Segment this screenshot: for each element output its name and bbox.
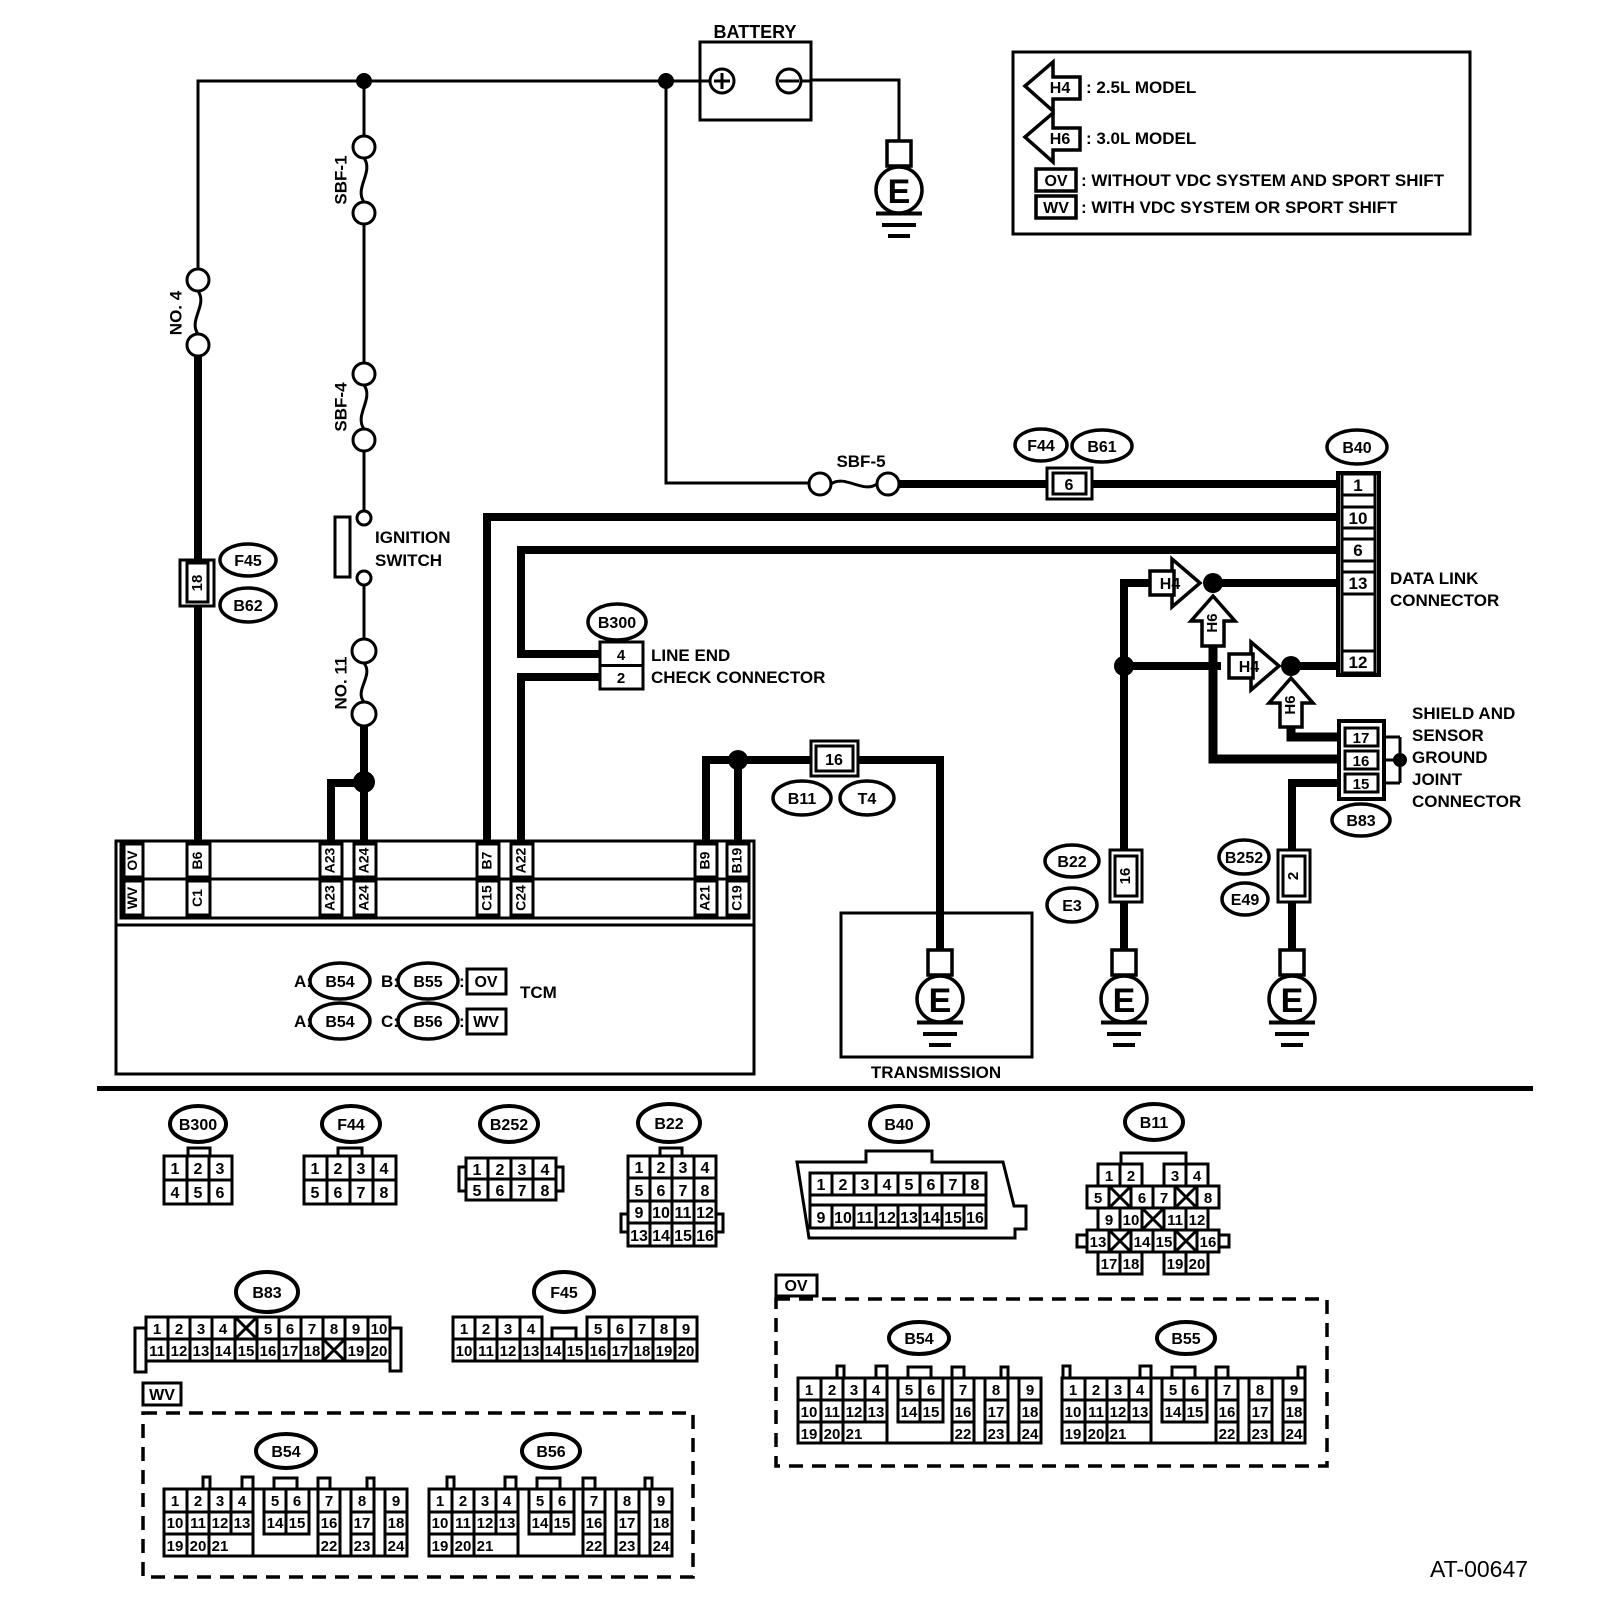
svg-text:7: 7 [959,1382,967,1399]
battery [700,42,811,120]
svg-text::: : [459,972,465,991]
svg-text:AT-00647: AT-00647 [1430,1556,1528,1582]
svg-text:12: 12 [1110,1404,1127,1421]
svg-text:4: 4 [238,1493,247,1510]
svg-text:10: 10 [432,1515,449,1532]
svg-text:16: 16 [1353,753,1370,770]
svg-text:13: 13 [630,1228,648,1245]
svg-text:CONNECTOR: CONNECTOR [1390,591,1499,610]
ellipse B300 (pinout) [170,1106,226,1142]
connector B40 pinout grid [810,1173,986,1228]
svg-text:22: 22 [955,1426,972,1443]
wire node to H4 arrow (pin 12 net) [1124,662,1338,670]
svg-text:B62: B62 [233,598,262,615]
fuse SBF-1 [353,136,375,224]
svg-text:B54: B54 [325,974,354,991]
svg-text:19: 19 [348,1343,365,1360]
svg-text:B22: B22 [1057,854,1086,871]
svg-text:6: 6 [1191,1382,1199,1399]
svg-text:T4: T4 [858,791,877,808]
svg-text:7: 7 [679,1183,688,1200]
connector B11 pinout grid [1077,1153,1229,1274]
legend H4 arrow [1025,62,1080,111]
connector B300 (line end check) [600,642,643,689]
svg-text:2: 2 [496,1162,505,1179]
svg-text:12: 12 [477,1515,494,1532]
svg-text:17: 17 [1101,1256,1118,1273]
svg-text:19: 19 [1065,1426,1082,1443]
wire SBF-1 feed [363,81,366,136]
svg-text:4: 4 [701,1160,710,1177]
svg-text:18: 18 [189,575,206,592]
svg-text:SENSOR: SENSOR [1412,726,1484,745]
svg-text:21: 21 [1110,1426,1127,1443]
svg-text:6: 6 [286,1321,294,1338]
svg-text:11: 11 [1167,1212,1183,1229]
svg-text:13: 13 [523,1343,540,1360]
svg-text:21: 21 [477,1538,494,1555]
connector 2 (B252/E49) [1278,850,1310,902]
separator line [97,1086,1533,1091]
svg-text:18: 18 [304,1343,321,1360]
TCM pin cell A24/A24 [354,844,376,915]
svg-text:H4: H4 [1160,576,1181,593]
svg-text:12: 12 [500,1343,517,1360]
svg-text:22: 22 [1219,1426,1236,1443]
svg-text:17: 17 [1252,1404,1269,1421]
svg-text:2: 2 [175,1321,183,1338]
svg-text:1: 1 [473,1162,482,1179]
svg-text:22: 22 [586,1538,603,1555]
svg-text:9: 9 [352,1321,360,1338]
svg-text:10: 10 [1123,1212,1140,1229]
svg-text:13: 13 [234,1515,251,1532]
svg-text:A24: A24 [356,847,372,873]
H4 arrow (pin 13 net) [1150,559,1200,607]
svg-text:13: 13 [1349,574,1368,593]
svg-text:18: 18 [1123,1256,1140,1273]
connector 6 (F44/B61) [1047,468,1092,499]
connector B83 shield/sensor ground joint [1339,721,1400,799]
svg-text:B54: B54 [325,1014,354,1031]
svg-text:11: 11 [824,1404,840,1421]
svg-text:18: 18 [1286,1404,1303,1421]
svg-text:8: 8 [992,1382,1000,1399]
svg-text:17: 17 [1353,730,1370,747]
svg-text:4: 4 [617,647,626,664]
svg-text:NO. 4: NO. 4 [166,290,185,335]
svg-text:20: 20 [1088,1426,1105,1443]
svg-text:SBF-1: SBF-1 [331,155,350,204]
svg-text:10: 10 [652,1205,670,1222]
svg-text:2: 2 [482,1321,490,1338]
svg-text:5: 5 [905,1382,913,1399]
svg-text:B7: B7 [479,851,495,869]
svg-text:4: 4 [380,1161,389,1178]
svg-text:3: 3 [216,1493,224,1510]
svg-text:4: 4 [883,1177,892,1194]
connector B55 pinout grid [1062,1366,1305,1443]
svg-text:3: 3 [861,1177,870,1194]
junction node at B40 pin 13 [1203,573,1223,593]
connector B252 pinout grid [459,1158,563,1200]
svg-text:5: 5 [271,1493,279,1510]
svg-text:12: 12 [1189,1212,1206,1229]
svg-text:14: 14 [532,1515,549,1532]
svg-text:2: 2 [617,670,625,687]
wire B40 pin 10 to TCM pin B7 [487,517,1338,841]
ellipse E3 [1047,888,1097,922]
svg-text:4: 4 [219,1321,228,1338]
svg-text:15: 15 [289,1515,306,1532]
svg-text:1: 1 [635,1160,644,1177]
svg-text:8: 8 [358,1493,366,1510]
svg-text:9: 9 [817,1210,826,1227]
wire NO.4 fuse to TCM pin B6 [194,356,202,841]
TCM pin row block [116,841,754,925]
svg-text:16: 16 [260,1343,277,1360]
svg-text:WV: WV [1043,200,1069,217]
TCM pin cell B6/C1 [187,844,210,915]
svg-text:5: 5 [1169,1382,1177,1399]
junction node on battery bus (SBF-1 tap) [356,73,372,89]
svg-text:10: 10 [1065,1404,1082,1421]
svg-text:: WITHOUT VDC SYSTEM AND SPORT: : WITHOUT VDC SYSTEM AND SPORT SHIFT [1081,171,1445,190]
wire ignition switch to NO.11 fuse [363,585,366,639]
WV section label box [143,1383,181,1405]
wire B252/E49 connector to ground [1288,902,1296,950]
wire SBF-5 to B40 pin 1 [899,480,1338,488]
svg-text:16: 16 [1200,1234,1217,1251]
svg-text:24: 24 [388,1538,405,1555]
svg-text:11: 11 [675,1205,692,1222]
svg-text:1: 1 [805,1382,813,1399]
svg-text:WV: WV [149,1387,175,1404]
svg-text:7: 7 [638,1321,646,1338]
svg-text:5: 5 [635,1183,644,1200]
svg-text:16: 16 [966,1210,984,1227]
svg-text:14: 14 [215,1343,232,1360]
ellipse E49 [1222,883,1268,915]
svg-text:20: 20 [371,1343,388,1360]
svg-text:5: 5 [473,1183,482,1200]
svg-text:14: 14 [1165,1404,1182,1421]
connector F45 pinout grid [453,1317,697,1361]
svg-text:F44: F44 [1027,438,1055,455]
junction node A23/A24 split [353,771,375,793]
ellipse B40 (pinout) [870,1106,928,1142]
svg-text:TCM: TCM [520,983,557,1002]
svg-text:8: 8 [623,1493,631,1510]
junction node B9/B19 split [728,750,748,770]
svg-text:A23: A23 [322,885,338,911]
legend box [1013,52,1470,234]
svg-text:2: 2 [459,1493,467,1510]
svg-text:3: 3 [850,1382,858,1399]
svg-text:B40: B40 [1342,440,1371,457]
svg-text:23: 23 [988,1426,1005,1443]
ellipse T4 [840,781,894,815]
TCM pin cell B7/C15 [477,844,499,915]
svg-text:2: 2 [657,1160,666,1177]
ellipse B11 [773,781,831,815]
transmission box [841,913,1032,1057]
svg-text:TRANSMISSION: TRANSMISSION [871,1063,1001,1082]
svg-text:21: 21 [846,1426,863,1443]
svg-text:15: 15 [674,1228,692,1245]
svg-text:19: 19 [801,1426,818,1443]
svg-text:B55: B55 [1171,1331,1200,1348]
svg-text:14: 14 [652,1228,670,1245]
svg-text:14: 14 [901,1404,918,1421]
svg-text:24: 24 [1022,1426,1039,1443]
svg-text:F45: F45 [550,1285,578,1302]
svg-text:B11: B11 [788,791,817,808]
wire B40 pin 13 to H4 arrow [1124,579,1338,587]
svg-text:15: 15 [567,1343,584,1360]
svg-text:9: 9 [682,1321,690,1338]
svg-text:16: 16 [321,1515,338,1532]
wire H6 stem to B83 joint pin 16 [1213,644,1341,759]
svg-text:14: 14 [267,1515,284,1532]
svg-text:11: 11 [455,1515,471,1532]
svg-text:24: 24 [653,1538,670,1555]
svg-text:18: 18 [388,1515,405,1532]
svg-text:10: 10 [1349,509,1368,528]
svg-text:1: 1 [460,1321,468,1338]
svg-text:: 3.0L MODEL: : 3.0L MODEL [1086,129,1196,148]
svg-text:20: 20 [678,1343,695,1360]
svg-text:12: 12 [878,1210,896,1227]
legend WV box [1036,196,1076,218]
svg-text:B9: B9 [697,851,713,869]
junction node on battery bus (SBF-5 tap) [658,73,674,89]
connector 16 (B22/E3) [1110,850,1142,902]
svg-text:B54: B54 [904,1331,933,1348]
svg-text:2: 2 [334,1161,343,1178]
svg-text:SWITCH: SWITCH [375,551,442,570]
svg-text:17: 17 [282,1343,299,1360]
svg-text:9: 9 [392,1493,400,1510]
svg-text:CONNECTOR: CONNECTOR [1412,792,1521,811]
svg-text:22: 22 [321,1538,338,1555]
svg-text:C19: C19 [729,885,745,911]
svg-text:20: 20 [455,1538,472,1555]
svg-text:16: 16 [955,1404,972,1421]
svg-text:17: 17 [988,1404,1005,1421]
legend H6 arrow [1025,113,1080,162]
svg-text:5: 5 [536,1493,544,1510]
svg-text:9: 9 [1105,1212,1113,1229]
junction node pin12 net [1114,656,1134,676]
svg-text:SBF-4: SBF-4 [331,382,350,432]
svg-text:19: 19 [1167,1256,1184,1273]
svg-text:3: 3 [1114,1382,1122,1399]
svg-text:1: 1 [153,1321,161,1338]
svg-text:E3: E3 [1062,898,1082,915]
svg-text:SHIELD AND: SHIELD AND [1412,704,1515,723]
svg-text:12: 12 [1349,653,1368,672]
svg-text:3: 3 [197,1321,205,1338]
connector B56 pinout grid [429,1477,672,1556]
svg-text:OV: OV [474,974,497,991]
wire battery to SBF-5 [666,81,809,483]
svg-text:2: 2 [1127,1168,1135,1185]
svg-text:17: 17 [354,1515,371,1532]
svg-text:16: 16 [586,1515,603,1532]
svg-text:1: 1 [1353,476,1362,495]
ellipse B22 [1045,845,1099,877]
svg-text:1: 1 [171,1493,179,1510]
svg-text:14: 14 [1134,1234,1151,1251]
TCM pin cell B19/C19 [727,844,749,915]
svg-text:C15: C15 [479,885,495,911]
svg-text:16: 16 [696,1228,714,1245]
svg-text:11: 11 [857,1210,874,1227]
svg-text:B55: B55 [413,974,442,991]
svg-text:B300: B300 [179,1117,217,1134]
connector 18 (F45/B62) [180,560,214,606]
svg-text:H6: H6 [1282,695,1299,714]
ellipse F45 (pinout) [534,1272,594,1312]
svg-text:6: 6 [616,1321,624,1338]
svg-text::: : [459,1012,465,1031]
svg-text:13: 13 [193,1343,210,1360]
ellipse B54 (OV pinout) [889,1322,949,1354]
ellipse B300 [588,604,646,640]
svg-text:10: 10 [801,1404,818,1421]
svg-text:6: 6 [293,1493,301,1510]
fuse NO.11 [352,639,376,726]
svg-text:H6: H6 [1050,131,1071,148]
svg-text:B252: B252 [490,1117,528,1134]
svg-text:7: 7 [518,1183,527,1200]
ellipse B61 [1072,430,1132,462]
svg-text:6: 6 [1065,477,1074,494]
wire SBF-4 to ignition switch [363,451,366,511]
svg-text:H6: H6 [1204,613,1221,632]
svg-text:12: 12 [212,1515,229,1532]
svg-text:18: 18 [653,1515,670,1532]
svg-text:6: 6 [334,1185,343,1202]
svg-text:1: 1 [436,1493,444,1510]
svg-text:B40: B40 [884,1117,913,1134]
svg-text:15: 15 [1156,1234,1173,1251]
svg-text:4: 4 [503,1493,512,1510]
svg-text:19: 19 [432,1538,449,1555]
svg-text:15: 15 [554,1515,571,1532]
svg-text:23: 23 [354,1538,371,1555]
svg-text:A21: A21 [697,885,713,911]
svg-text:13: 13 [1132,1404,1149,1421]
svg-text:15: 15 [1353,776,1370,793]
svg-text:7: 7 [325,1493,333,1510]
svg-text:8: 8 [1204,1190,1212,1207]
svg-text:10: 10 [456,1343,473,1360]
svg-text:20: 20 [1189,1256,1206,1273]
svg-text:4: 4 [171,1185,180,1202]
svg-text:SBF-5: SBF-5 [836,452,885,471]
svg-text:11: 11 [190,1515,206,1532]
svg-text:7: 7 [590,1493,598,1510]
wire SBF-1 to SBF-4 [363,224,366,363]
wire NO.11 fuse to TCM pins A23/A24 [331,726,364,841]
svg-text:4: 4 [527,1321,536,1338]
svg-text:C1: C1 [189,889,205,907]
svg-text:4: 4 [541,1162,550,1179]
svg-text:1: 1 [311,1161,320,1178]
svg-text:6: 6 [1353,541,1362,560]
svg-text:3: 3 [481,1493,489,1510]
svg-text:OV: OV [1044,173,1067,190]
svg-text:CHECK CONNECTOR: CHECK CONNECTOR [651,668,825,687]
svg-text:2: 2 [828,1382,836,1399]
svg-text:OV: OV [124,850,140,871]
svg-text:2: 2 [1092,1382,1100,1399]
svg-text:B300: B300 [598,615,636,632]
svg-text:11: 11 [149,1343,165,1360]
svg-text:2: 2 [1285,872,1302,880]
svg-text:6: 6 [496,1183,505,1200]
ellipse F45 [220,544,276,576]
svg-text:16: 16 [590,1343,607,1360]
svg-text:9: 9 [1290,1382,1298,1399]
ellipse B22 (pinout) [638,1104,700,1142]
svg-text:H4: H4 [1239,659,1260,676]
wire H6 stem to B83 joint pin 17 [1291,725,1341,737]
svg-text:10: 10 [167,1515,184,1532]
svg-text:10: 10 [371,1321,388,1338]
svg-text:7: 7 [308,1321,316,1338]
svg-text:6: 6 [1138,1190,1146,1207]
TCM pin cell OV/WV [124,844,143,915]
svg-text:BATTERY: BATTERY [714,22,797,42]
connector B22 pinout grid [621,1148,723,1246]
svg-text:6: 6 [927,1382,935,1399]
connector 16 (B11/T4) [811,741,858,776]
svg-text:8: 8 [541,1183,550,1200]
svg-text:5: 5 [264,1321,272,1338]
ground E (transmission) [917,950,963,1045]
svg-text:17: 17 [612,1343,629,1360]
svg-text:8: 8 [330,1321,338,1338]
wire battery bus (top horizontal + left drop to NO.4 fuse) [198,81,700,269]
svg-text:E49: E49 [1231,892,1260,909]
svg-text:6: 6 [216,1185,225,1202]
fuse NO.4 [187,269,209,356]
svg-text:A22: A22 [513,847,529,873]
svg-text:16: 16 [825,752,843,769]
connector F44 pinout grid [304,1148,396,1204]
svg-text:OV: OV [784,1278,807,1295]
svg-text:21: 21 [212,1538,229,1555]
ignition switch [335,511,371,585]
svg-text:4: 4 [1136,1382,1145,1399]
svg-text:8: 8 [660,1321,668,1338]
svg-text:1: 1 [1069,1382,1077,1399]
connector B54 (WV) pinout grid [164,1477,407,1556]
ellipse B252 (pinout) [480,1106,538,1142]
svg-text:B19: B19 [729,847,745,873]
ground E (battery) [876,141,922,236]
TCM pin cell A23/A23 [320,844,342,915]
svg-text:8: 8 [701,1183,710,1200]
svg-text:E: E [888,173,911,211]
svg-text:B54: B54 [271,1444,300,1461]
svg-text:4: 4 [1193,1168,1202,1185]
svg-text:F45: F45 [234,553,262,570]
H4 arrow (pin 12 net) [1229,642,1279,690]
